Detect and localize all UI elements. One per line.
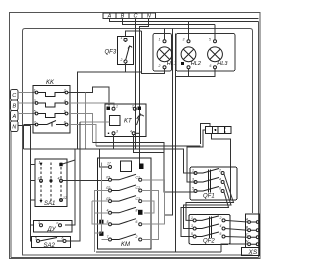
wire left B to KK [18, 102, 36, 104]
time relay KT [105, 104, 146, 137]
lamp HL1 [157, 40, 172, 69]
wire HL2 riser [188, 22, 190, 40]
svg-text:KT: KT [124, 119, 133, 125]
svg-text:С1: С1 [136, 176, 140, 180]
svg-text:5: 5 [35, 237, 37, 241]
svg-text:2: 2 [131, 105, 134, 109]
svg-text:6: 6 [220, 232, 222, 236]
lamp HL2 [181, 40, 196, 69]
terminal strip A B C N [103, 13, 156, 18]
labels strip [107, 14, 151, 20]
svg-text:4: 4 [219, 178, 221, 182]
fan line B to QF1 row2 [96, 146, 201, 182]
svg-text:SA2: SA2 [44, 243, 56, 249]
svg-text:3: 3 [183, 38, 185, 42]
svg-text:QF2: QF2 [203, 239, 215, 245]
svg-text:2: 2 [120, 58, 123, 62]
svg-text:SA1: SA1 [44, 201, 55, 207]
svg-text:6: 6 [219, 187, 221, 191]
breaker QF2 [189, 214, 230, 244]
KM contact 4 [109, 207, 143, 215]
wire SA1 diagonal riser [63, 160, 76, 164]
svg-text:N: N [147, 14, 151, 20]
wire QF2 to XS [225, 220, 248, 237]
remote control DU [34, 221, 73, 233]
svg-text:C: C [134, 14, 138, 20]
svg-text:3: 3 [38, 177, 40, 181]
wire bottom bus to XS [96, 244, 248, 252]
drawing frame [10, 13, 261, 259]
wire HL1 riser [164, 29, 166, 40]
wire SA1 mid to KM [63, 179, 109, 181]
wire left A to KK [18, 113, 36, 115]
svg-text:HL2: HL2 [191, 61, 201, 67]
wire QF3 bottom to left drop [78, 63, 142, 149]
wire KM right drops [142, 180, 165, 240]
KM contact 3 [109, 196, 142, 203]
lamp box HL2 HL3 [176, 34, 235, 72]
svg-text:3: 3 [192, 178, 194, 182]
switch SA1 [35, 159, 67, 207]
pin number marks [34, 36, 249, 244]
svg-text:С2: С2 [136, 186, 140, 190]
svg-text:B: B [12, 104, 16, 110]
wire HL1 bottom return [142, 31, 165, 74]
wire phase N jog drop [140, 19, 149, 167]
KM contact 2 [109, 185, 142, 192]
svg-text:С3: С3 [136, 197, 140, 201]
svg-text:6: 6 [136, 220, 138, 224]
wire KK row4 drop [68, 125, 96, 146]
wire SA2 right riser [66, 122, 80, 241]
contactor KM [98, 158, 152, 249]
svg-text:A: A [11, 114, 16, 120]
svg-text:8: 8 [64, 121, 66, 125]
wire KK row1 to KT corner [68, 87, 109, 105]
svg-text:4: 4 [58, 177, 60, 181]
svg-text:c: c [57, 221, 59, 225]
wire KK row3 drop [68, 114, 93, 143]
breaker QF1 [190, 167, 237, 200]
svg-text:5: 5 [107, 220, 109, 224]
wire QF3 top riser [126, 31, 142, 37]
svg-text:2: 2 [158, 64, 161, 68]
svg-text:C: C [12, 93, 16, 99]
svg-text:1: 1 [34, 89, 36, 93]
svg-text:ДУ: ДУ [47, 227, 57, 233]
svg-text:7: 7 [34, 121, 36, 125]
wire HL2 HL3 bottom return [176, 69, 216, 77]
svg-text:Л1: Л1 [105, 176, 110, 180]
svg-text:HL3: HL3 [217, 61, 228, 67]
svg-text:1: 1 [121, 36, 123, 40]
wire left C to KK [18, 92, 36, 94]
svg-text:8: 8 [136, 209, 138, 213]
wire lamp return verticals [165, 29, 176, 253]
svg-text:3: 3 [191, 224, 193, 228]
svg-text:QF1: QF1 [203, 194, 215, 200]
svg-text:XS: XS [248, 249, 258, 256]
svg-text:17: 17 [107, 162, 111, 166]
svg-text:1: 1 [116, 105, 118, 109]
wire terminal block drop [212, 134, 231, 201]
svg-text:5: 5 [209, 38, 211, 42]
svg-text:4: 4 [107, 209, 109, 213]
wire phase C drop [135, 19, 137, 150]
svg-text:1: 1 [192, 169, 194, 173]
svg-text:4: 4 [130, 129, 132, 133]
wire terminal block hooks [187, 123, 210, 146]
wire KT left feed [80, 121, 110, 123]
svg-text:4: 4 [220, 224, 222, 228]
svg-text:2: 2 [218, 169, 221, 173]
svg-text:N: N [12, 125, 16, 131]
KM contact 1 [109, 174, 142, 181]
N ring enclosure wire [23, 29, 253, 214]
lamp box HL1 [153, 34, 172, 72]
svg-text:Л3: Л3 [105, 197, 110, 201]
breaker QF3 [118, 37, 134, 65]
thermal relay KK [33, 86, 70, 134]
main bus to QF1 row1 [24, 149, 196, 173]
svg-text:A: A [107, 14, 112, 20]
left terminal strip C B A N [11, 90, 19, 132]
svg-text:3: 3 [34, 99, 36, 103]
svg-text:1: 1 [39, 161, 41, 165]
bottom ring wire [23, 213, 253, 255]
svg-text:KK: KK [46, 80, 55, 86]
KM contact rows [99, 174, 142, 241]
svg-text:5: 5 [34, 110, 36, 114]
wire left N jog [18, 125, 36, 150]
svg-text:2: 2 [135, 235, 138, 239]
svg-text:2: 2 [219, 216, 222, 220]
svg-text:5: 5 [191, 232, 193, 236]
wire QF1 to QF2 wrap [181, 174, 234, 237]
socket XS [242, 214, 260, 255]
svg-text:4: 4 [64, 99, 66, 103]
svg-text:6: 6 [64, 110, 66, 114]
lamp HL3 [208, 40, 223, 69]
wire KK row1 branch down [84, 93, 86, 150]
svg-text:12: 12 [63, 196, 67, 200]
wire KK row2 to KT terminal [68, 103, 114, 107]
svg-text:1: 1 [159, 38, 161, 42]
svg-text:Л2: Л2 [105, 186, 110, 190]
wire KT bottom-right drop [134, 135, 164, 153]
svg-text:7: 7 [107, 235, 109, 239]
svg-text:5: 5 [192, 187, 194, 191]
wire bus A band [110, 19, 259, 22]
wire KM left brackets [92, 162, 109, 252]
wire SA1 left bracket [31, 126, 36, 242]
wire KM coil feed [99, 149, 108, 167]
wire HL3 riser [214, 25, 216, 40]
terminal block small [206, 127, 232, 134]
svg-text:1: 1 [191, 216, 193, 220]
wire KT bottom-left drop [113, 135, 115, 149]
svg-text:KM: KM [121, 242, 130, 248]
switch SA2 [32, 237, 71, 248]
svg-text:3: 3 [116, 129, 118, 133]
svg-text:6: 6 [62, 237, 64, 241]
svg-text:QF3: QF3 [105, 50, 117, 56]
svg-text:6: 6 [210, 64, 212, 68]
wire bus B [123, 19, 216, 25]
svg-text:3: 3 [38, 221, 40, 225]
svg-text:B: B [121, 14, 125, 20]
svg-text:2: 2 [63, 89, 66, 93]
KM contact 5 [99, 219, 142, 226]
fan line A to QF1 row3 [93, 143, 196, 193]
strip bottom extension line [156, 18, 259, 20]
